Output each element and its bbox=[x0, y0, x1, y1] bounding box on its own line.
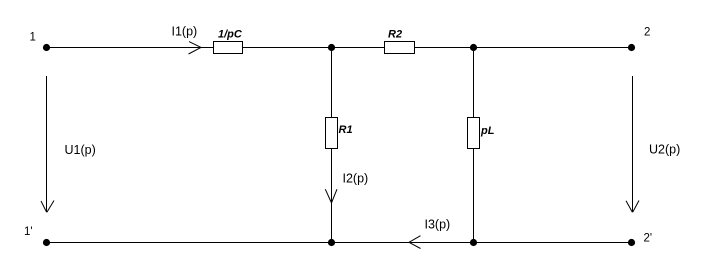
svg-text:2': 2' bbox=[644, 233, 653, 245]
wire pL to junction B' bbox=[473, 149, 475, 243]
svg-text:U2(p): U2(p) bbox=[649, 143, 680, 157]
current arrow I1(p) bbox=[189, 42, 202, 54]
wire node 1' to junction A' bbox=[47, 242, 332, 244]
wire junction B to pL bbox=[473, 48, 475, 118]
wire capacitor to junction A bbox=[243, 47, 332, 49]
wire junction A to R1 bbox=[331, 48, 333, 118]
svg-text:2: 2 bbox=[644, 27, 650, 39]
node 1' bbox=[43, 239, 50, 246]
svg-text:I1(p): I1(p) bbox=[172, 25, 198, 39]
voltage arrow U2(p) bbox=[626, 76, 639, 212]
resistor R1 bbox=[326, 118, 338, 149]
svg-text:I2(p): I2(p) bbox=[343, 172, 369, 186]
svg-text:1/pC: 1/pC bbox=[218, 29, 243, 41]
junction A' bbox=[328, 239, 335, 246]
inductor pL bbox=[468, 118, 480, 149]
wire junction A to R2 bbox=[332, 47, 385, 49]
current arrow I3(p) bbox=[409, 236, 421, 249]
svg-text:1': 1' bbox=[24, 226, 33, 238]
node 2 bbox=[628, 44, 635, 51]
svg-text:I3(p): I3(p) bbox=[425, 218, 451, 232]
wire R2 to junction B bbox=[415, 47, 474, 49]
junction B bbox=[470, 44, 477, 51]
resistor R2 bbox=[385, 42, 415, 54]
node 2' bbox=[628, 239, 635, 246]
current arrow I2(p) bbox=[325, 189, 337, 202]
junction A bbox=[328, 44, 335, 51]
node 1 bbox=[43, 44, 50, 51]
wire R1 to junction A' bbox=[331, 149, 333, 243]
capacitor C1 (1/pC) bbox=[214, 42, 243, 54]
svg-text:R2: R2 bbox=[388, 29, 402, 41]
junction B' bbox=[470, 239, 477, 246]
svg-text:pL: pL bbox=[480, 125, 495, 137]
wire junction B to node 2 bbox=[474, 47, 632, 49]
wire node 1 to capacitor bbox=[47, 47, 214, 49]
voltage arrow U1(p) bbox=[41, 76, 54, 212]
svg-text:1: 1 bbox=[30, 32, 36, 44]
svg-text:R1: R1 bbox=[339, 124, 353, 136]
wire junction A' to junction B' bbox=[332, 242, 474, 244]
wire junction B' to node 2' bbox=[474, 242, 632, 244]
svg-text:U1(p): U1(p) bbox=[65, 143, 96, 157]
